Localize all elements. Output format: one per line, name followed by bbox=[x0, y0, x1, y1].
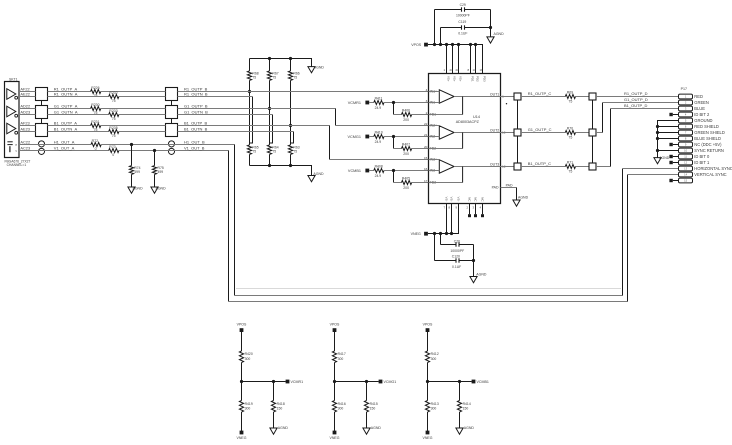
wire N line corner down to R63 bbox=[291, 132, 294, 144]
ground AGND top termination rail bbox=[308, 67, 315, 73]
svg-text:B1_OUTN_B: B1_OUTN_B bbox=[184, 126, 208, 131]
svg-text:0: 0 bbox=[112, 153, 114, 157]
svg-text:AD8003ACPZ: AD8003ACPZ bbox=[456, 120, 480, 124]
capacitor C26 10000PF bbox=[440, 234, 442, 245]
svg-text:PAD: PAD bbox=[506, 183, 513, 187]
junction top rail R67 bbox=[268, 57, 271, 60]
junction VCMB1 node bbox=[392, 169, 395, 172]
svg-text:13: 13 bbox=[473, 68, 477, 72]
resistor R74 499 pulldown H bbox=[131, 145, 133, 166]
svg-text:4: 4 bbox=[426, 88, 428, 92]
wire P17 pin5 GROUND to ground bus bbox=[658, 121, 679, 158]
wire R1_OUTP_D to P17 pin1 bbox=[596, 96, 679, 98]
svg-text:R406: R406 bbox=[402, 109, 410, 113]
svg-text:AC22: AC22 bbox=[20, 139, 30, 144]
svg-text:200: 200 bbox=[403, 152, 409, 156]
svg-text:24.9: 24.9 bbox=[375, 106, 382, 110]
svg-text:300: 300 bbox=[338, 357, 344, 361]
svg-text:R69: R69 bbox=[567, 91, 573, 95]
net stub VCMR1 bbox=[286, 380, 290, 384]
net stub at P17 pin 4 bbox=[669, 113, 672, 116]
junction VCMG1 node bbox=[392, 135, 395, 138]
svg-text:G1_OUTP_B: G1_OUTP_B bbox=[184, 103, 208, 108]
svg-text:AGND: AGND bbox=[278, 426, 289, 430]
wire filter1 to R231 bbox=[48, 125, 91, 127]
svg-text:R411: R411 bbox=[375, 97, 383, 101]
svg-text:VNEG: VNEG bbox=[330, 436, 340, 440]
junction VCMG1 node bbox=[333, 380, 336, 383]
ground AGND for VCMG1 divider bbox=[363, 428, 370, 434]
wire triangle 1 output to OUT1 bbox=[454, 96, 500, 98]
IC PAD pin wire to AGND bbox=[501, 187, 517, 189]
ground AGND at P17 shield bus bbox=[654, 158, 661, 164]
IC pin NC 1 no connect stub bbox=[469, 204, 471, 215]
wire VCMB1 pad to R408 bbox=[369, 170, 374, 172]
junction VPOS rail bbox=[433, 43, 436, 46]
svg-text:R419: R419 bbox=[245, 402, 253, 406]
wire R66 down to P line bbox=[290, 80, 292, 125]
resistor R414 150 to AGND bbox=[459, 382, 461, 401]
resistor R72 0 series H line bbox=[91, 142, 101, 146]
wire R230 to filter2 bbox=[101, 108, 166, 110]
wire H1_OUT_B route to P17 pin13 bbox=[234, 145, 236, 296]
chassis symbol inside SKT1 bbox=[7, 141, 12, 143]
resistor R235 75 series N line bbox=[109, 129, 119, 133]
svg-text:VCMG1: VCMG1 bbox=[384, 380, 397, 384]
svg-text:0.1UF: 0.1UF bbox=[458, 32, 467, 36]
AGND rail top of termination resistors bbox=[250, 59, 312, 67]
connector P17 pin 15 bbox=[679, 178, 693, 183]
connector P17 pin 11 bbox=[679, 154, 693, 159]
svg-text:R410: R410 bbox=[375, 131, 383, 135]
junction bottom rail R63 bbox=[289, 164, 292, 167]
svg-text:C119: C119 bbox=[458, 20, 466, 24]
svg-text:VCMR1: VCMR1 bbox=[348, 101, 361, 105]
power flag VNEG for VCMR1 divider bbox=[240, 431, 244, 435]
svg-text:U14: U14 bbox=[473, 115, 480, 119]
power flag VNEG for VCMG1 divider bbox=[333, 431, 337, 435]
svg-text:R420: R420 bbox=[245, 352, 253, 356]
svg-text:B1_OUTP_A: B1_OUTP_A bbox=[54, 120, 77, 125]
svg-text:24.9: 24.9 bbox=[375, 140, 382, 144]
svg-text:R231: R231 bbox=[91, 120, 99, 124]
wire R226 to filter2 bbox=[101, 91, 166, 93]
svg-text:B1_OUTN_A: B1_OUTN_A bbox=[54, 126, 78, 131]
svg-text:R405: R405 bbox=[402, 177, 410, 181]
amplifier triangle 1 inside U14 bbox=[439, 90, 454, 103]
svg-text:75: 75 bbox=[252, 150, 256, 154]
junction VPOS rail bbox=[469, 43, 472, 46]
svg-text:ID BIT 2: ID BIT 2 bbox=[694, 112, 710, 117]
svg-text:G1_OUTP_D: G1_OUTP_D bbox=[624, 97, 648, 102]
connector P17 pin 6 bbox=[679, 124, 693, 129]
filter block column 1 box 1 bbox=[36, 88, 48, 101]
svg-text:16: 16 bbox=[424, 167, 428, 171]
junction VPOS rail bbox=[451, 43, 454, 46]
wire R408 to IC pin bbox=[384, 170, 429, 172]
wire filter1 to R232 bbox=[48, 96, 109, 98]
svg-text:BLUE: BLUE bbox=[694, 106, 705, 111]
resistor R412 300 from VPOS bbox=[427, 332, 429, 351]
jumper block vertical link group 1 bbox=[517, 97, 519, 167]
svg-text:R408: R408 bbox=[375, 165, 383, 169]
jumper square group2 row 1 bbox=[589, 93, 596, 100]
wire node down to R406 bbox=[393, 103, 395, 115]
wire R69 to jumper group2 bbox=[576, 96, 590, 98]
svg-text:75: 75 bbox=[272, 150, 276, 154]
svg-text:H1_OUT_A: H1_OUT_A bbox=[54, 139, 75, 144]
capacitor C29 10000PF bbox=[434, 10, 436, 45]
svg-text:B1_OUTP_D: B1_OUTP_D bbox=[624, 103, 647, 108]
stray dot bbox=[506, 103, 507, 104]
svg-text:GROUND: GROUND bbox=[694, 118, 712, 123]
svg-text:VCMR1: VCMR1 bbox=[291, 380, 304, 384]
junction branch R418 bbox=[272, 380, 275, 383]
svg-text:PD1: PD1 bbox=[471, 76, 475, 82]
buffer triangle 1 inside SKT1 bbox=[7, 89, 16, 100]
svg-text:AD23: AD23 bbox=[20, 109, 30, 114]
resistor R406 200 to FB pin bbox=[402, 112, 412, 116]
wire R407 to FB pin bbox=[412, 148, 429, 150]
net stub at P17 pin 15 bbox=[669, 179, 672, 182]
power flag VNEG for VCMB1 divider bbox=[426, 431, 430, 435]
wire P17 pin 10 to ground bus bbox=[658, 150, 679, 152]
svg-text:VS-: VS- bbox=[450, 197, 454, 202]
junction bottom rail R64 bbox=[268, 164, 271, 167]
svg-text:C120: C120 bbox=[452, 254, 460, 258]
wire B1_OUTN_B from filter2 to termination bbox=[178, 131, 294, 133]
svg-text:AC23: AC23 bbox=[20, 145, 30, 150]
wire SKT1 to filter1 R1 pair P bbox=[19, 91, 36, 93]
wire R75 to AGND bbox=[154, 174, 156, 187]
net stub VCMB1 bbox=[472, 380, 476, 384]
connector P17 pin 13 bbox=[679, 166, 693, 171]
filter block column 2 box 2 bbox=[166, 106, 178, 119]
svg-text:VS+: VS+ bbox=[453, 76, 457, 82]
svg-text:AGND: AGND bbox=[313, 172, 324, 176]
svg-text:75: 75 bbox=[272, 76, 276, 80]
junction VPOS rail bbox=[439, 43, 442, 46]
jumper square group1 row 2 bbox=[514, 129, 521, 136]
resistor R69 75 series output bbox=[565, 94, 575, 98]
svg-text:75: 75 bbox=[293, 76, 297, 80]
svg-text:BLUE SHIELD: BLUE SHIELD bbox=[694, 136, 721, 141]
junction VCMR1 node bbox=[240, 380, 243, 383]
svg-text:R407: R407 bbox=[402, 143, 410, 147]
ground AGND decoupling top bbox=[487, 37, 494, 43]
wire FB1 feedback bbox=[429, 114, 463, 116]
wire triangle 2 output to OUT2 bbox=[454, 132, 500, 134]
net stub at P17 pin 9 bbox=[669, 143, 672, 146]
wire SKT1 to filter1 G1 pair P bbox=[19, 108, 36, 110]
wire filter1 to R235 bbox=[48, 131, 109, 133]
svg-text:VS-: VS- bbox=[445, 197, 449, 202]
junction ground bus pin 6 bbox=[656, 125, 659, 128]
wire N line corner down to R65 bbox=[250, 97, 253, 144]
svg-text:R232: R232 bbox=[109, 91, 117, 95]
resistor R73 0 series V line bbox=[109, 148, 119, 152]
svg-text:G1_OUTP_A: G1_OUTP_A bbox=[54, 103, 78, 108]
svg-text:B1_OUTP_C: B1_OUTP_C bbox=[528, 161, 551, 166]
resistor R230 75 series P line bbox=[91, 106, 101, 110]
svg-text:R1_OUTN_B: R1_OUTN_B bbox=[184, 91, 208, 96]
svg-text:75: 75 bbox=[252, 76, 256, 80]
wire B1_OUTP_D riser to P17 pin3 bbox=[596, 166, 611, 168]
buffer triangle 2 inside SKT1 bbox=[7, 106, 16, 117]
connector P17 pin 3 bbox=[679, 106, 693, 111]
wire filter1 to R233 bbox=[48, 114, 109, 116]
wire node to VCMR1 stub bbox=[242, 381, 286, 383]
wire R67 down to P line bbox=[269, 80, 271, 108]
junction R66 on P line bbox=[289, 124, 292, 127]
ground AGND for VCMB1 divider bbox=[456, 428, 463, 434]
wire R232 to filter2 bbox=[119, 96, 166, 98]
resistor R407 200 to FB pin bbox=[402, 146, 412, 150]
faint bus line bbox=[236, 288, 621, 290]
junction VCMB1 node bbox=[426, 380, 429, 383]
IC pin VS+ 2 bbox=[452, 45, 454, 74]
connector P17 pin 7 bbox=[679, 130, 693, 135]
wire R411 to IC pin bbox=[384, 102, 429, 104]
junction R67 on P line bbox=[268, 107, 271, 110]
wire B1_OUTP_B from filter2 with jog to IN3+ bbox=[178, 125, 330, 127]
svg-text:AGND: AGND bbox=[464, 426, 475, 430]
wire SKT1 to bead V1_OUT bbox=[19, 150, 109, 152]
svg-text:AGND: AGND bbox=[314, 65, 325, 69]
connector P17 pin 10 bbox=[679, 148, 693, 153]
svg-text:AGND: AGND bbox=[659, 156, 670, 160]
IC pin NC 2 no connect stub bbox=[475, 204, 477, 215]
svg-text:ID BIT 0: ID BIT 0 bbox=[694, 154, 710, 159]
wire P17 pin 6 to ground bus bbox=[658, 126, 679, 128]
svg-text:24: 24 bbox=[450, 68, 454, 72]
svg-text:R226: R226 bbox=[91, 86, 99, 90]
svg-text:200: 200 bbox=[403, 118, 409, 122]
svg-text:VCMB1: VCMB1 bbox=[348, 169, 361, 173]
svg-text:499: 499 bbox=[158, 170, 164, 174]
junction V line to R75 bbox=[153, 149, 156, 152]
wire R68 down to P line bbox=[249, 80, 251, 91]
wire SKT1 to filter1 B1 pair P bbox=[19, 125, 36, 127]
junction ground bus pin 8 bbox=[656, 137, 659, 140]
svg-text:V1_OUT_A: V1_OUT_A bbox=[54, 145, 75, 150]
svg-text:VS+: VS+ bbox=[459, 76, 463, 82]
svg-text:R230: R230 bbox=[91, 103, 99, 107]
connector P17 pin 2 bbox=[679, 100, 693, 105]
wire P-line junction down to R63 bbox=[290, 126, 292, 145]
wire triangle 3 output to OUT3 bbox=[454, 166, 500, 168]
inversion bubble for buffer 1 bbox=[15, 96, 18, 99]
svg-text:RED: RED bbox=[694, 94, 703, 99]
svg-text:HORIZONTAL SYNC: HORIZONTAL SYNC bbox=[694, 166, 732, 171]
svg-text:VPOS: VPOS bbox=[330, 322, 340, 326]
svg-text:150: 150 bbox=[370, 407, 376, 411]
wire R1_OUTN_B from filter2 to termination bbox=[178, 96, 253, 98]
svg-text:AE23: AE23 bbox=[20, 126, 30, 131]
VNEG rail to IC supply pins bbox=[428, 204, 459, 234]
wire IN2- into triangle bbox=[429, 136, 440, 138]
svg-text:75: 75 bbox=[112, 99, 116, 103]
svg-text:VCMG1: VCMG1 bbox=[347, 135, 361, 139]
svg-text:G1_OUTN_A: G1_OUTN_A bbox=[54, 109, 78, 114]
junction C26/C120 ground bbox=[472, 259, 475, 262]
svg-text:3: 3 bbox=[426, 99, 428, 103]
wire R231 to filter2 bbox=[101, 125, 166, 127]
svg-text:R415: R415 bbox=[370, 402, 378, 406]
wire R233 to filter2 bbox=[119, 114, 166, 116]
resistor R419 300 to VNEG bbox=[241, 382, 243, 401]
svg-text:GREEN: GREEN bbox=[694, 100, 709, 105]
wire R72 to bead2 H line bbox=[101, 144, 234, 146]
svg-text:75: 75 bbox=[568, 99, 572, 103]
svg-text:300: 300 bbox=[245, 407, 251, 411]
svg-text:17: 17 bbox=[424, 179, 428, 183]
net stub VCMG1 bbox=[379, 380, 383, 384]
svg-text:R417: R417 bbox=[338, 352, 346, 356]
op-amp IC U14 AD8003ACPZ body bbox=[429, 74, 501, 204]
IC pin PD2 bbox=[475, 45, 477, 74]
svg-text:300: 300 bbox=[431, 357, 437, 361]
inversion bubble for buffer 3 bbox=[15, 131, 18, 134]
svg-text:VS+: VS+ bbox=[447, 76, 451, 82]
resistor R75 499 pulldown V bbox=[154, 151, 156, 166]
wire node down to R407 bbox=[393, 137, 395, 149]
svg-text:75: 75 bbox=[293, 150, 297, 154]
svg-text:V1_OUT_B: V1_OUT_B bbox=[184, 145, 205, 150]
filter block column 1 box 2 bbox=[36, 106, 48, 119]
svg-text:150: 150 bbox=[277, 407, 283, 411]
svg-text:R418: R418 bbox=[277, 402, 285, 406]
svg-text:PD2: PD2 bbox=[476, 76, 480, 82]
svg-text:75: 75 bbox=[112, 117, 116, 121]
svg-text:75: 75 bbox=[568, 169, 572, 173]
wire N line corner down to R64 bbox=[270, 115, 273, 144]
resistor R64 75 termination to bottom rail bbox=[267, 145, 271, 154]
svg-text:R1_OUTN_A: R1_OUTN_A bbox=[54, 91, 78, 96]
wire R406 to FB pin bbox=[412, 114, 429, 116]
junction VPOS rail bbox=[474, 43, 477, 46]
resistor R232 75 series N line bbox=[109, 94, 119, 98]
svg-text:VCMB1: VCMB1 bbox=[477, 380, 489, 384]
connector P17 pin 12 bbox=[679, 160, 693, 165]
svg-text:R233: R233 bbox=[109, 109, 117, 113]
IC pin NC 3 no connect stub bbox=[482, 204, 484, 215]
svg-text:300: 300 bbox=[338, 407, 344, 411]
wire R410 to IC pin bbox=[384, 136, 429, 138]
wire caps to AGND bottom bbox=[473, 245, 475, 277]
wire R74 to AGND bbox=[131, 174, 133, 187]
wire node down to R405 bbox=[393, 171, 395, 183]
svg-text:PAD: PAD bbox=[492, 186, 499, 190]
resistor R413 300 to VNEG bbox=[427, 382, 429, 401]
wire OUT3 to jumper group1 bbox=[501, 166, 515, 168]
svg-text:AGND: AGND bbox=[371, 426, 382, 430]
svg-text:NC: NC bbox=[474, 197, 478, 201]
svg-text:21: 21 bbox=[424, 133, 428, 137]
svg-text:24.9: 24.9 bbox=[375, 174, 382, 178]
wire filter1 to R230 bbox=[48, 108, 91, 110]
wire IN3+ into triangle bbox=[429, 159, 440, 161]
wire IN2+ into triangle bbox=[429, 125, 440, 127]
svg-text:AE22: AE22 bbox=[20, 91, 30, 96]
filter block column 2 interconnect stubs bbox=[171, 101, 173, 106]
IC pin PD3 bbox=[482, 45, 484, 74]
svg-text:75: 75 bbox=[568, 135, 572, 139]
ferrite bead circles column 1 on H/V lines bbox=[38, 141, 44, 147]
resistor R226 75 series P line bbox=[91, 89, 101, 93]
wire R71 to jumper group2 bbox=[576, 166, 590, 168]
svg-text:VERTICAL SYNC: VERTICAL SYNC bbox=[694, 172, 726, 177]
ground AGND below R75 bbox=[151, 187, 158, 193]
svg-text:VNEG: VNEG bbox=[423, 436, 433, 440]
wire R70 to jumper group2 bbox=[576, 132, 590, 134]
wire R1_OUTP_C to R69 bbox=[521, 96, 565, 98]
svg-text:R416: R416 bbox=[338, 402, 346, 406]
svg-text:R70: R70 bbox=[567, 127, 573, 131]
junction VPOS rail bbox=[457, 43, 460, 46]
jumper square group1 row 1 bbox=[514, 93, 521, 100]
net stub at P17 pin 11 bbox=[669, 155, 672, 158]
svg-text:P17: P17 bbox=[681, 87, 687, 91]
svg-text:150: 150 bbox=[463, 407, 469, 411]
svg-text:VPOS: VPOS bbox=[237, 322, 247, 326]
svg-text:R71: R71 bbox=[567, 161, 573, 165]
svg-text:NC (DDC +5V): NC (DDC +5V) bbox=[694, 142, 722, 147]
svg-text:VPOS: VPOS bbox=[423, 322, 433, 326]
junction ground bus pin 7 bbox=[656, 131, 659, 134]
svg-text:CHANNEL=1: CHANNEL=1 bbox=[7, 163, 27, 167]
svg-text:AF23: AF23 bbox=[20, 120, 29, 125]
buffer triangle 3 inside SKT1 bbox=[7, 123, 16, 134]
svg-text:H: H bbox=[15, 144, 17, 147]
junction H line to R74 bbox=[130, 143, 133, 146]
connector P17 pin 9 bbox=[679, 142, 693, 147]
junction top rail R66 bbox=[289, 57, 292, 60]
svg-text:20: 20 bbox=[424, 145, 428, 149]
wire P17 pin 8 to ground bus bbox=[658, 138, 679, 140]
wire V1_OUT_B route to P17 pin14 bbox=[228, 151, 230, 302]
resistor R63 75 termination to bottom rail bbox=[288, 145, 292, 154]
svg-text:R1_OUTP_D: R1_OUTP_D bbox=[624, 91, 648, 96]
svg-text:300: 300 bbox=[431, 407, 437, 411]
resistor R416 300 to VNEG bbox=[334, 382, 336, 401]
junction C29/C119 ground bbox=[489, 26, 492, 29]
svg-text:23: 23 bbox=[456, 68, 460, 72]
junction branch R415 bbox=[365, 380, 368, 383]
resistor R233 75 series N line bbox=[109, 112, 119, 116]
resistor R415 150 to AGND bbox=[366, 382, 368, 401]
svg-text:R413: R413 bbox=[431, 402, 439, 406]
wire R235 to filter2 bbox=[119, 131, 166, 133]
wire P17 pin 7 to ground bus bbox=[658, 132, 679, 134]
svg-text:ID BIT 1: ID BIT 1 bbox=[694, 160, 710, 165]
wire P-line junction down to R65 bbox=[249, 92, 251, 145]
svg-text:G1_OUTN_B: G1_OUTN_B bbox=[184, 109, 208, 114]
wire IN1- into triangle bbox=[429, 102, 440, 104]
svg-text:R73: R73 bbox=[109, 145, 115, 149]
svg-text:NC: NC bbox=[468, 197, 472, 201]
ground AGND at PAD bbox=[513, 200, 520, 206]
connector P17 pin 1 bbox=[679, 94, 693, 99]
wire OUT2 to jumper group1 bbox=[501, 132, 515, 134]
svg-text:GREEN SHIELD: GREEN SHIELD bbox=[694, 130, 725, 135]
ground AGND for VCMR1 divider bbox=[270, 428, 277, 434]
VPOS rail to IC supply pins bbox=[428, 45, 483, 74]
svg-text:75: 75 bbox=[112, 134, 116, 138]
connector P17 pin 8 bbox=[679, 136, 693, 141]
connector SKT1 body bbox=[5, 82, 20, 158]
svg-text:G1_OUTP_C: G1_OUTP_C bbox=[528, 127, 552, 132]
